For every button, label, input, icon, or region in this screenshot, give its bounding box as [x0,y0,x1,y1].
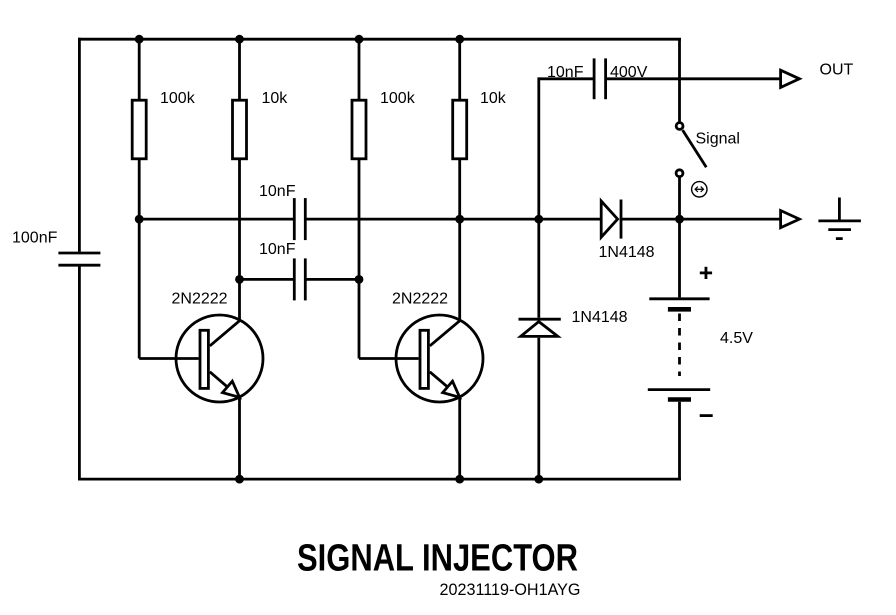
label battery plus [700,267,712,279]
battery BT1 4.5V [648,219,710,480]
wire Q1 base [139,219,198,358]
wire C4 right lead to OUT [606,77,781,80]
wire middle rail left [139,218,294,221]
svg-text:10nF: 10nF [259,241,296,258]
junction battery positive node [675,215,684,224]
junction Q2 base link [355,275,364,284]
junction top rail R3 [355,35,364,44]
svg-text:10k: 10k [480,90,507,107]
junction top rail R4 [455,35,464,44]
wire middle rail right [305,218,601,221]
wire middle rail to ground port [621,218,781,221]
junction bottom rail D2 [534,475,543,484]
svg-text:SIGNAL INJECTOR: SIGNAL INJECTOR [297,538,578,580]
resistor R2 10k [233,38,247,321]
capacitor C2 10nF [294,198,305,240]
junction D1 anode node [534,215,543,224]
wire bottom rail [78,478,681,481]
ground symbol [818,198,861,239]
wire coupling link [240,278,360,281]
port ground arrow [781,211,800,228]
junction Q1 base node [135,215,144,224]
junction top rail R2 [235,35,244,44]
capacitor C1 100nF [58,253,100,265]
junction Q2 collector node [455,215,464,224]
capacitor C3 10nF [294,258,305,300]
switch actuation symbol [692,182,707,197]
wire D2 lower lead [537,338,540,481]
resistor R4 10k [453,38,467,321]
svg-text:20231119-OH1AYG: 20231119-OH1AYG [440,580,581,599]
junction bottom rail Q2 emitter [455,475,464,484]
svg-text:10nF: 10nF [259,183,296,200]
junction Q1 collector link [235,275,244,284]
svg-text:100k: 100k [380,90,416,107]
wire top rail [78,38,681,41]
transistor Q1 2N2222 [176,315,263,402]
wire C4 left lead [539,77,594,317]
junction bottom rail Q1 emitter [235,475,244,484]
diode D1 1N4148 [601,200,621,239]
wire switch to node [678,177,681,220]
svg-text:OUT: OUT [820,62,854,79]
switch S1 Signal [676,123,706,177]
svg-text:1N4148: 1N4148 [599,244,655,261]
port OUT arrow [781,70,800,87]
svg-text:100k: 100k [160,90,196,107]
junction top rail R1 [135,35,144,44]
wire Q2 emitter down [458,397,461,479]
wire switch drop [678,39,681,122]
wire left column [78,38,81,481]
svg-text:4.5V: 4.5V [720,330,753,347]
transistor Q2 2N2222 [396,315,483,402]
svg-text:2N2222: 2N2222 [172,290,228,307]
resistor R1 100k [132,38,146,219]
svg-text:Signal: Signal [696,131,740,148]
diode D2 1N4148 [519,319,561,336]
wire Q1 emitter down [238,397,241,479]
svg-text:10k: 10k [262,90,289,107]
label battery minus [700,414,713,417]
wire Q2 base [359,357,419,360]
resistor R3 100k [352,38,366,359]
svg-text:2N2222: 2N2222 [392,290,448,307]
capacitor C4 10nF 400V [594,58,606,99]
svg-text:100nF: 100nF [12,230,58,247]
svg-text:1N4148: 1N4148 [572,309,628,326]
